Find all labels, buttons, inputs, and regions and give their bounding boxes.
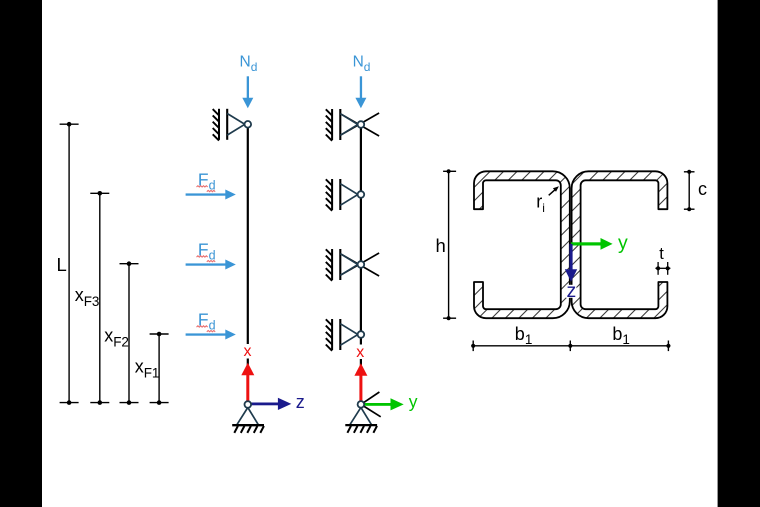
right pillarbox bar <box>718 0 760 507</box>
left C-channel wall of cross-section <box>474 171 570 318</box>
dimension line xF2 <box>120 264 139 403</box>
left pillarbox bar <box>0 0 42 507</box>
column 2 member <box>360 125 362 405</box>
pin support 2 column 2 <box>326 179 358 211</box>
load arrow Nd column 2 <box>355 76 366 108</box>
white backing for x label column 1 <box>242 344 254 359</box>
svg-text:L: L <box>57 254 67 275</box>
svg-text:z: z <box>567 280 577 302</box>
right C-channel wall of cross-section <box>572 171 668 318</box>
dimension t <box>655 262 670 275</box>
fork cross at column 2 support 1 <box>340 113 379 136</box>
x axis arrow column 1 (red) <box>241 363 254 402</box>
spellcheck squiggle under Fd 1 <box>197 186 208 187</box>
x axis arrow column 2 (red) <box>354 363 367 401</box>
z axis arrow cross-section (navy) <box>565 244 577 282</box>
force arrow Fd 1 <box>186 190 236 200</box>
bottom pin support column 2 <box>345 407 377 432</box>
svg-text:y: y <box>618 232 628 254</box>
svg-text:t: t <box>659 245 664 263</box>
pin support 3 column 2 <box>326 249 358 281</box>
pin support 4 column 2 <box>326 319 358 351</box>
svg-text:z: z <box>296 392 305 412</box>
y axis arrow column 2 (green) <box>364 398 404 410</box>
force arrow Fd 3 <box>186 330 236 340</box>
leader arrow ri <box>549 190 556 196</box>
svg-text:h: h <box>436 235 446 256</box>
spellcheck squiggle under Fd 3 <box>197 326 208 327</box>
dimension line L <box>60 124 79 402</box>
y axis arrow cross-section (green) <box>571 238 613 250</box>
top pin support column 1 <box>213 109 245 141</box>
dimension line xF1 <box>150 334 169 403</box>
fork cross at column 2 bottom support <box>361 392 381 417</box>
svg-text:y: y <box>409 391 418 411</box>
dimension c <box>684 172 695 209</box>
z axis arrow column 1 (navy) <box>251 398 291 410</box>
svg-text:x: x <box>356 344 364 361</box>
white backing for x label column 2 <box>355 345 367 360</box>
column 1 member <box>247 124 249 404</box>
spellcheck squiggle under Fd 2 <box>197 256 208 257</box>
dimension h <box>443 171 456 318</box>
dimension line xF3 <box>90 193 109 402</box>
load arrow Nd column 1 <box>242 76 253 108</box>
white backing for z label cross-section <box>566 285 577 298</box>
svg-text:x: x <box>244 343 252 360</box>
svg-text:c: c <box>698 179 707 199</box>
bottom pin support column 1 <box>232 408 264 433</box>
force arrow Fd 2 <box>186 260 236 270</box>
fork cross at column 2 support 3 <box>340 253 379 276</box>
pin support 1 column 2 <box>326 109 358 141</box>
dimension b1 b1 <box>473 341 668 352</box>
